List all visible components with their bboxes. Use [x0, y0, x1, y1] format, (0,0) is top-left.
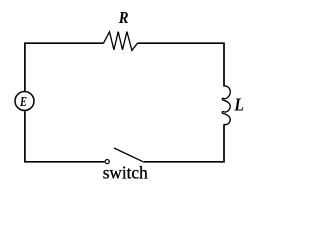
wire top-right segment and upper-right vertical — [138, 43, 225, 86]
svg-text:E: E — [19, 95, 27, 110]
wire top-left segment and upper-left vertical — [25, 43, 104, 91]
wire lower-right vertical and bottom-right segment — [144, 124, 224, 162]
svg-text:R: R — [118, 8, 129, 27]
inductor L — [222, 86, 230, 125]
svg-text:L: L — [234, 95, 244, 115]
wire bottom-left segment and lower-left vertical — [25, 111, 105, 162]
switch S1 blade — [114, 148, 144, 162]
svg-text:switch: switch — [103, 162, 148, 182]
source E (EMF) circle — [15, 92, 34, 111]
switch S1 contact circle — [105, 160, 109, 164]
resistor R — [104, 32, 138, 51]
